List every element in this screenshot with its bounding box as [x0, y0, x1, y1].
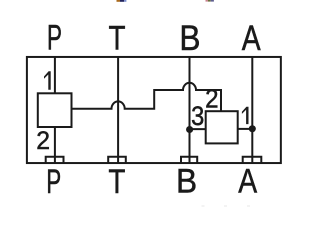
- faint cropped text below (next line remnants): [202, 205, 251, 207]
- svg-text:P: P: [47, 19, 62, 58]
- valve element box between B and A: [206, 111, 238, 143]
- svg-text:P: P: [46, 163, 61, 201]
- junction dot on B line: [186, 126, 193, 133]
- pin label 1 (left box top): [44, 71, 51, 90]
- cropped text remnant top-left: [117, 0, 127, 2]
- wire B line to right box: [190, 128, 206, 130]
- valve element box on P line: [38, 93, 72, 127]
- pin label 1 (right box right): [242, 107, 249, 124]
- bottom port symbol P: [46, 157, 64, 163]
- wire right box to A line: [238, 128, 253, 130]
- P channel line (upper): [54, 57, 56, 93]
- svg-text:3: 3: [191, 102, 204, 132]
- svg-text:2: 2: [36, 127, 50, 155]
- bottom port symbol T: [108, 157, 126, 163]
- A channel line: [251, 57, 253, 163]
- T channel line: [117, 57, 119, 163]
- svg-text:A: A: [238, 161, 258, 200]
- svg-text:T: T: [109, 19, 126, 57]
- svg-text:B: B: [176, 162, 197, 201]
- svg-text:A: A: [242, 18, 262, 57]
- junction dot on A line: [249, 125, 256, 132]
- svg-text:2: 2: [205, 86, 218, 114]
- svg-text:T: T: [108, 162, 125, 200]
- B channel line: [189, 57, 191, 163]
- cropped text remnant top-right: [206, 0, 214, 2]
- bottom port symbol B: [181, 157, 197, 163]
- P channel line (lower): [54, 127, 56, 163]
- svg-text:B: B: [179, 19, 200, 58]
- valve body outline: [27, 57, 281, 163]
- bottom port symbol A: [243, 157, 262, 163]
- wire from left box to right box pin 2, hops over T and B lines: [72, 83, 222, 111]
